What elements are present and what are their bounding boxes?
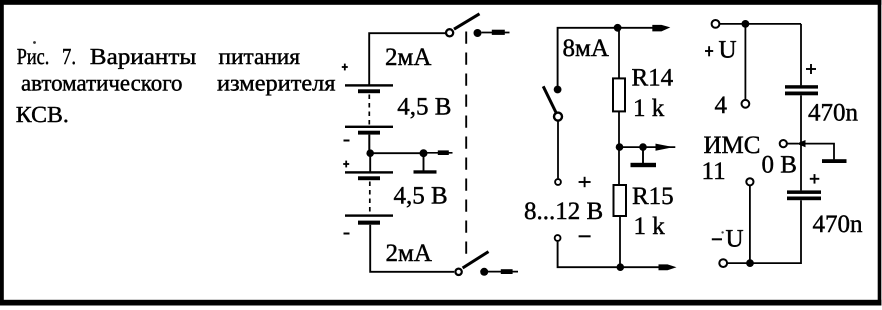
terminal: +U	[712, 20, 720, 28]
svg-text:4: 4	[715, 92, 728, 119]
node: common terminal dot	[639, 143, 647, 151]
wire: +U to pin 4	[744, 24, 746, 100]
label +U	[705, 37, 737, 64]
switch SA1.1 lever	[454, 14, 480, 29]
svg-text:ИМС: ИМС	[704, 132, 761, 159]
battery GB1 cell1 plates	[345, 84, 393, 93]
capacitor C1 plates	[785, 85, 818, 95]
wire: R15 bottom	[619, 216, 621, 267]
node: divider midpoint	[616, 143, 624, 151]
battery GB1 dashed body	[368, 95, 370, 126]
svg-text:8мА: 8мА	[563, 35, 609, 62]
terminal: pin 11	[746, 178, 753, 185]
wire: IC top run	[720, 23, 802, 25]
label - of GB2	[344, 233, 350, 235]
svg-text:1 k: 1 k	[633, 95, 665, 122]
battery GB1 cell2 plates	[345, 126, 393, 153]
switch SA2 pivot	[554, 113, 562, 121]
common terminal T symbol	[631, 150, 657, 167]
terminal: pin 4	[742, 100, 750, 108]
ground symbol	[801, 144, 847, 163]
node: -U junction	[746, 259, 754, 267]
wire: C2 to bottom run	[727, 200, 801, 263]
resistor R15	[614, 185, 627, 216]
battery GB2 cell1 plates	[345, 171, 393, 180]
capacitor C2 plates	[787, 190, 821, 200]
wire: R14 branch upper	[618, 28, 620, 79]
switch SA1.2 contact dot	[480, 268, 488, 276]
arrowhead at zero junction	[796, 140, 805, 147]
svg-text:470n: 470n	[808, 100, 859, 127]
terminal: supply minus	[555, 235, 561, 241]
wire: junction to GB2	[369, 153, 371, 172]
wire: right rail upper	[800, 24, 802, 86]
switch SA1.2 lever	[463, 252, 489, 268]
label - of GB1	[344, 140, 350, 142]
label + of C2	[810, 174, 820, 184]
svg-text:2мА: 2мА	[385, 44, 431, 71]
svg-text:R14: R14	[632, 65, 674, 92]
wire: GB2 minus down and bottom run	[370, 225, 454, 272]
label + supply	[579, 177, 591, 187]
label -U	[712, 226, 744, 253]
wire: minus terminal to bottom run	[558, 242, 664, 268]
svg-text:11: 11	[702, 158, 726, 185]
battery GB2 dashed body	[369, 182, 371, 214]
svg-text:0 В: 0 В	[762, 152, 797, 179]
mid terminal T symbol	[414, 156, 437, 174]
wire: mid output with tick	[427, 150, 453, 155]
terminal: supply plus	[555, 179, 561, 185]
svg-text:U: U	[726, 226, 744, 253]
node: bottom junction	[617, 263, 625, 271]
svg-text:4,5 В: 4,5 В	[394, 183, 448, 210]
wire: bottom output with tick	[488, 269, 518, 274]
svg-text:8...12 В: 8...12 В	[524, 198, 603, 225]
wire: midpoint arrow out	[647, 144, 676, 151]
switch SA1.2 pivot	[455, 269, 461, 275]
resistor R14	[613, 78, 625, 111]
wire: C1 to zero junction	[800, 95, 802, 190]
label + of GB1	[342, 64, 348, 71]
svg-text:U: U	[719, 37, 737, 64]
caption text	[16, 44, 336, 127]
node: R14 top junction	[614, 24, 622, 32]
wire: midpoint to terminal	[370, 152, 424, 154]
scan speck above caption	[33, 41, 36, 44]
svg-text:1 k: 1 k	[634, 213, 666, 240]
terminal: 0V	[780, 140, 787, 147]
switch gang dashed link	[465, 32, 467, 263]
half-arrow end of top run	[652, 25, 670, 32]
svg-text:автоматическогоизмерителя: автоматическогоизмерителя	[21, 70, 336, 95]
node: +U junction	[742, 20, 750, 28]
scan speck near -U	[721, 231, 723, 233]
label - supply	[579, 235, 591, 237]
wire: middle circuit top run	[558, 28, 664, 89]
switch SA1.1 contact dot	[474, 29, 482, 37]
wire: SA2 to plus terminal	[557, 121, 559, 178]
wire: 0V terminal to rail	[787, 143, 798, 145]
switch SA2 lever	[543, 86, 556, 112]
svg-text:R15: R15	[632, 183, 674, 210]
svg-text:КСВ.: КСВ.	[16, 102, 69, 127]
wire: midpoint to common	[620, 146, 647, 148]
svg-text:4,5 В: 4,5 В	[397, 94, 451, 121]
node: mid terminal dot	[420, 149, 428, 157]
svg-text:2мА: 2мА	[386, 240, 432, 267]
wire: R14 to R15	[618, 111, 620, 185]
switch SA1.1 pivot	[446, 29, 453, 36]
wire: top output with tick	[482, 30, 510, 35]
battery GB2 cell2 plates	[345, 214, 393, 224]
svg-text:470n: 470n	[813, 211, 864, 238]
node: battery midpoint junction	[366, 149, 374, 157]
wire: pin 11 down	[749, 186, 751, 264]
terminal: -U	[719, 259, 727, 267]
switch SA2 contact dot	[554, 86, 562, 94]
label + of C1	[806, 64, 816, 74]
half-arrow end of bottom run	[659, 264, 677, 270]
wire: left circuit top-left vertical	[369, 33, 445, 85]
label + of GB2	[343, 161, 349, 168]
